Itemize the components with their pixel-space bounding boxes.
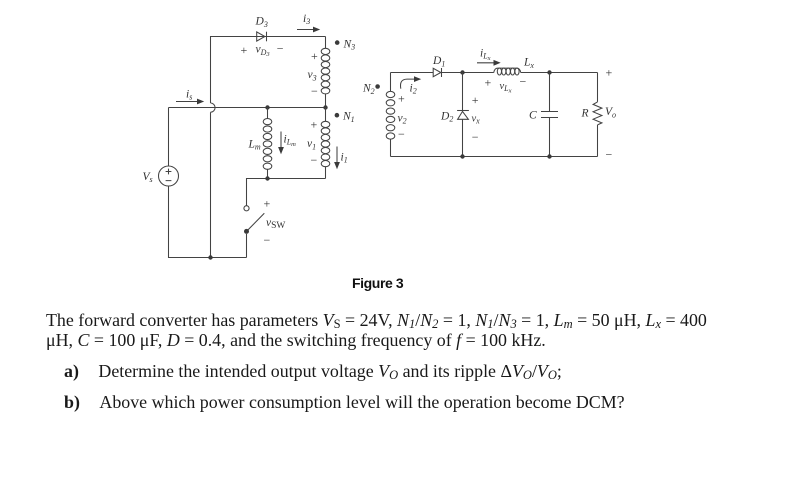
- svg-text:i1: i1: [341, 152, 348, 165]
- wire C branch: [549, 73, 551, 157]
- svg-text:+: +: [311, 49, 318, 63]
- svg-text:is: is: [186, 89, 192, 102]
- node phase dot N3: [335, 40, 340, 45]
- wire left branch lower and bottom: [169, 186, 247, 258]
- svg-text:v1: v1: [307, 138, 316, 151]
- wire left branch upper: [168, 108, 170, 167]
- wire R branch: [597, 73, 599, 157]
- arrow is: [176, 99, 204, 105]
- wire middle horizontal: [169, 107, 326, 109]
- svg-text:Vs: Vs: [143, 171, 153, 184]
- svg-text:+: +: [311, 117, 318, 131]
- svg-text:−: −: [277, 41, 284, 55]
- svg-text:+: +: [485, 76, 492, 90]
- resistor R: [593, 102, 602, 125]
- svg-text:Lm: Lm: [248, 139, 261, 152]
- capacitor C: [541, 112, 558, 118]
- node Lm top junction: [265, 105, 269, 109]
- wire secondary top: [391, 72, 598, 74]
- svg-text:Vo: Vo: [605, 106, 616, 119]
- wire secondary bottom: [391, 156, 598, 158]
- svg-text:iLx: iLx: [480, 48, 491, 63]
- node D1 cathode junction: [460, 70, 464, 74]
- svg-text:iLm: iLm: [284, 134, 297, 149]
- svg-text:−: −: [520, 75, 527, 89]
- wire bottom of windings: [247, 179, 326, 206]
- node D2 bottom junction: [460, 154, 464, 158]
- svg-text:+: +: [264, 196, 271, 210]
- svg-text:N1: N1: [342, 111, 355, 124]
- svg-text:+: +: [398, 92, 405, 106]
- svg-text:i3: i3: [303, 13, 310, 26]
- svg-text:vSW: vSW: [266, 217, 285, 231]
- node phase dot N2: [375, 84, 380, 89]
- node bottom junction: [208, 255, 212, 259]
- svg-text:−: −: [311, 84, 318, 98]
- svg-text:v2: v2: [398, 112, 407, 125]
- diode D1: [433, 68, 441, 77]
- winding N2: [386, 73, 395, 157]
- svg-text:N3: N3: [343, 38, 356, 51]
- arrow i3: [297, 27, 320, 33]
- svg-text:−: −: [472, 130, 479, 144]
- svg-text:+: +: [472, 93, 479, 107]
- svg-text:D3: D3: [255, 16, 268, 29]
- svg-text:vD3: vD3: [256, 44, 271, 59]
- inductor Lm (magnetizing): [263, 108, 272, 179]
- svg-text:vx: vx: [472, 113, 481, 125]
- svg-text:N2: N2: [362, 83, 375, 96]
- svg-text:−: −: [264, 233, 271, 247]
- svg-text:+: +: [241, 43, 248, 57]
- node C top junction: [547, 70, 551, 74]
- svg-text:−: −: [311, 153, 318, 167]
- svg-text:D2: D2: [440, 110, 453, 123]
- svg-text:C: C: [529, 110, 537, 122]
- arrow iLm: [278, 132, 284, 155]
- arrow i2 (hook): [400, 76, 421, 89]
- svg-text:vLx: vLx: [500, 81, 512, 95]
- winding N1: [321, 108, 330, 179]
- inductor Lx: [494, 68, 521, 75]
- node phase dot N1: [335, 113, 340, 118]
- svg-text:v3: v3: [308, 69, 317, 82]
- node Lm bottom junction: [265, 176, 269, 180]
- svg-text:−: −: [606, 147, 613, 161]
- diode D3: [257, 32, 267, 42]
- wire hop crossing middle wire: [211, 103, 216, 258]
- wire D2 branch: [462, 73, 464, 157]
- diode D2: [457, 111, 469, 120]
- switch SW: [244, 206, 264, 258]
- svg-text:R: R: [581, 108, 589, 120]
- svg-text:−: −: [398, 127, 405, 141]
- wire top loop (D3 branch): [211, 37, 326, 104]
- svg-text:Lx: Lx: [523, 57, 534, 70]
- winding N3: [321, 37, 330, 108]
- svg-text:D1: D1: [432, 55, 445, 68]
- voltage source Vs: [159, 166, 179, 186]
- arrow iLx: [477, 60, 501, 66]
- arrow i1: [334, 147, 340, 170]
- svg-text:i2: i2: [410, 83, 417, 96]
- svg-text:+: +: [606, 65, 613, 79]
- node C bottom junction: [547, 154, 551, 158]
- node N3 bottom junction: [323, 105, 327, 109]
